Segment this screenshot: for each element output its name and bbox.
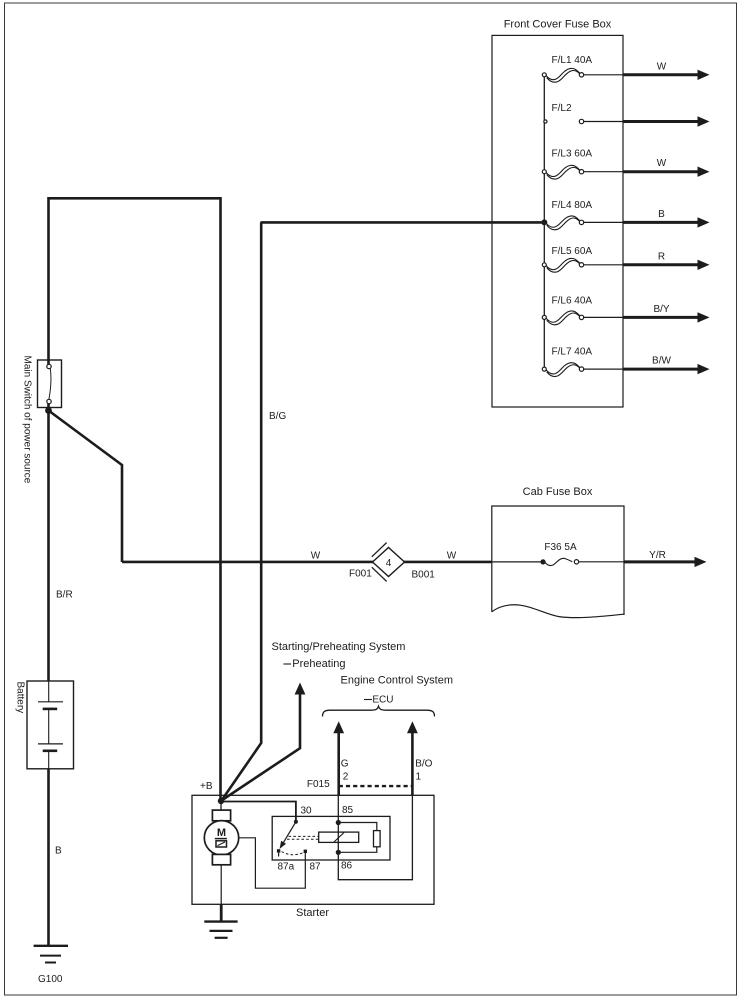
fuse F/L1 F/L1 40A: [542, 55, 623, 82]
svg-text:G: G: [341, 759, 349, 770]
label engine control system: [341, 674, 454, 686]
fuse F/L7 F/L7 40A: [542, 347, 623, 377]
label F001: [349, 569, 372, 580]
wire starter box to ground: [220, 904, 223, 921]
relay coil diagonal: [334, 833, 344, 843]
svg-text:Starter: Starter: [296, 907, 329, 919]
svg-text:Front Cover Fuse Box: Front Cover Fuse Box: [504, 19, 612, 31]
svg-text:85: 85: [342, 805, 354, 816]
svg-text:1: 1: [416, 772, 422, 783]
wire F36 to cab box edge: [579, 561, 624, 563]
label starter: [296, 907, 329, 919]
svg-text:W: W: [311, 551, 321, 562]
svg-text:87a: 87a: [278, 862, 295, 873]
relay pin 85 node: [336, 820, 341, 825]
label main switch of power source: [22, 356, 33, 484]
output wire arrow (unlabeled) from F/L2: [623, 116, 710, 126]
junction node below main switch: [45, 407, 52, 414]
label 1: [416, 772, 422, 783]
svg-text:F/L1 40A: F/L1 40A: [552, 55, 593, 66]
relay switch blade: [280, 822, 296, 849]
svg-text:M: M: [217, 827, 226, 839]
main switch of power source: [38, 360, 62, 408]
svg-text:Engine Control System: Engine Control System: [341, 674, 454, 686]
output wire arrow B/Y from F/L6: [623, 304, 710, 323]
starter motor M: [204, 810, 238, 865]
wire 85 to resistor: [338, 823, 377, 831]
output wire arrow W from F/L1: [623, 61, 710, 80]
label 86: [341, 861, 353, 872]
label 2: [343, 772, 349, 783]
svg-text:F/L6 40A: F/L6 40A: [552, 295, 593, 306]
wire G to ECU pin 2 (arrow up): [333, 721, 344, 795]
svg-text:Preheating: Preheating: [292, 658, 345, 670]
wire B/O to ECU pin 1 (arrow up): [407, 721, 418, 795]
output wire arrow Y/R: [624, 550, 707, 567]
fuse box internal bus: [543, 75, 545, 369]
wire motor to starter box bottom: [220, 865, 222, 905]
label ECU: [364, 695, 394, 706]
label W right of connector: [447, 551, 457, 562]
svg-text:Cab Fuse Box: Cab Fuse Box: [523, 486, 593, 498]
ground G100: [34, 946, 68, 963]
wire motor to contact 87: [239, 838, 306, 888]
starter relay box: [272, 816, 390, 860]
wire switch to battery B/R: [47, 404, 50, 682]
battery: [27, 681, 74, 769]
svg-text:Main Switch of power source: Main Switch of power source: [22, 356, 33, 484]
label B: [55, 846, 62, 857]
relay blade alternate position (dashed arc): [282, 852, 304, 855]
label G: [341, 759, 349, 770]
svg-text:F/L7 40A: F/L7 40A: [552, 347, 593, 358]
brace over ECU pins: [323, 706, 435, 716]
wire from B/G branch to fuse box F/L4: [261, 221, 543, 224]
svg-text:B/W: B/W: [652, 356, 671, 367]
front cover fuse box outline: [492, 35, 623, 407]
label B001: [412, 570, 436, 581]
wire to preheating with arrow: [222, 683, 306, 801]
label B/G: [269, 411, 286, 422]
svg-text:W: W: [657, 158, 667, 169]
fuse F/L3 F/L3 60A: [542, 149, 623, 179]
relay common contact 30: [294, 820, 298, 824]
svg-text:B: B: [658, 209, 665, 220]
fuse F/L2 F/L2: [544, 103, 623, 124]
fuse F/L6 F/L6 40A: [542, 295, 623, 324]
output wire arrow B from F/L4: [623, 209, 710, 228]
svg-text:F/L5 60A: F/L5 60A: [552, 246, 593, 257]
wire W to cab fuse box: [122, 561, 492, 564]
output wire arrow W from F/L3: [623, 158, 710, 177]
relay contact 87: [304, 850, 307, 853]
wire +B to motor: [220, 801, 222, 810]
fuse F/L5 F/L5 60A: [542, 246, 623, 272]
wire ECU pin2 through coil to 86: [337, 795, 339, 852]
svg-text:W: W: [657, 61, 667, 72]
label 87: [310, 862, 322, 873]
label B/R: [56, 590, 73, 601]
label 85: [342, 805, 354, 816]
label 87a: [278, 862, 295, 873]
svg-text:Starting/Preheating System: Starting/Preheating System: [272, 641, 406, 653]
output wire arrow B/W from F/L7: [623, 356, 710, 375]
svg-text:R: R: [658, 251, 665, 262]
label B/O: [415, 759, 432, 770]
svg-text:87: 87: [310, 862, 322, 873]
wire 86 to ECU pin 1 branch: [338, 795, 412, 879]
svg-text:2: 2: [343, 772, 349, 783]
relay coil: [319, 832, 359, 842]
node +B: [218, 798, 224, 804]
starter box outline: [192, 795, 434, 904]
svg-text:4: 4: [386, 558, 392, 569]
svg-text:86: 86: [341, 861, 353, 872]
svg-text:Battery: Battery: [15, 682, 26, 714]
svg-text:+B: +B: [200, 781, 213, 792]
svg-text:F36 5A: F36 5A: [544, 542, 577, 553]
label 30: [301, 806, 313, 817]
label +B: [200, 781, 213, 792]
wire +B to relay pin 30: [221, 802, 296, 821]
svg-text:W: W: [447, 551, 457, 562]
svg-text:B/Y: B/Y: [653, 304, 669, 315]
svg-text:F015: F015: [307, 779, 330, 790]
svg-text:G100: G100: [38, 974, 63, 985]
relay resistor: [374, 831, 381, 847]
cab fuse box outline (torn bottom): [492, 506, 624, 618]
wire inside cab fuse box: [492, 561, 541, 563]
relay linkage dashed lines: [287, 836, 319, 839]
label preheating: [284, 658, 346, 670]
fuse F/L4 F/L4 80A: [541, 200, 623, 230]
front cover fuse box title: [504, 19, 612, 31]
svg-text:Y/R: Y/R: [649, 550, 666, 561]
output wire arrow R from F/L5: [623, 251, 710, 270]
svg-text:30: 30: [301, 806, 313, 817]
wire B/G vertical drop: [222, 222, 262, 800]
connector F015 dashed line: [339, 785, 413, 787]
wire main switch to cab fuse box feed: [49, 411, 123, 563]
svg-text:F/L2: F/L2: [552, 103, 572, 114]
starter ground: [204, 922, 237, 938]
label battery: [15, 682, 26, 714]
svg-text:B001: B001: [412, 570, 436, 581]
svg-text:F001: F001: [349, 569, 372, 580]
svg-text:B/G: B/G: [269, 411, 286, 422]
svg-text:ECU: ECU: [372, 695, 393, 706]
svg-text:F/L3 60A: F/L3 60A: [552, 149, 593, 160]
wire battery branch to fuse-box branch (top loop): [49, 198, 221, 801]
svg-text:F/L4 80A: F/L4 80A: [552, 200, 593, 211]
label F015: [307, 779, 330, 790]
fuse F36 5A: [540, 542, 578, 566]
label W left of connector: [311, 551, 321, 562]
cab fuse box title: [523, 486, 593, 498]
relay contact 87a: [277, 849, 280, 856]
wire battery to ground B: [47, 769, 50, 946]
label starting/preheating system: [272, 641, 406, 653]
label G100: [38, 974, 63, 985]
wire resistor to 86: [338, 847, 377, 853]
svg-text:B/R: B/R: [56, 590, 73, 601]
relay pin 86 node: [336, 850, 341, 855]
svg-text:B: B: [55, 846, 62, 857]
connector F001/B001 (diamond 4): [372, 543, 405, 582]
svg-text:B/O: B/O: [415, 759, 432, 770]
